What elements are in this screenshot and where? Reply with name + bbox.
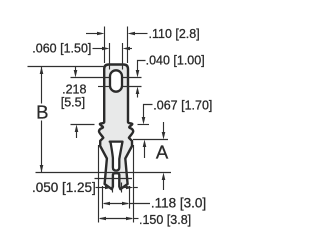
svg-text:.150 [3.8]: .150 [3.8] bbox=[139, 213, 191, 227]
svg-text:.067 [1.70]: .067 [1.70] bbox=[153, 98, 212, 112]
svg-text:.060 [1.50]: .060 [1.50] bbox=[32, 42, 91, 56]
svg-text:.040 [1.00]: .040 [1.00] bbox=[146, 53, 205, 67]
svg-text:.050 [1.25]: .050 [1.25] bbox=[32, 180, 96, 195]
svg-text:.118 [3.0]: .118 [3.0] bbox=[151, 195, 206, 210]
svg-text:A: A bbox=[156, 141, 169, 162]
svg-text:B: B bbox=[36, 102, 48, 123]
svg-text:.110 [2.8]: .110 [2.8] bbox=[149, 27, 200, 41]
svg-text:.218: .218 bbox=[62, 82, 86, 96]
svg-text:[5.5]: [5.5] bbox=[61, 95, 85, 109]
